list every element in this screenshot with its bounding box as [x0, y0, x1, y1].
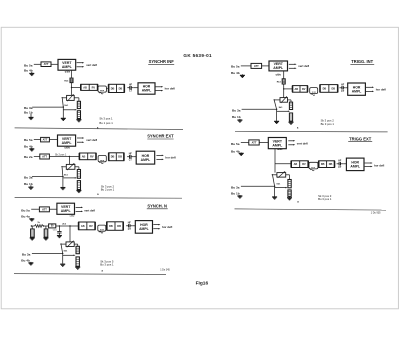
node branch to pot C3 — [69, 156, 70, 157]
block VERT AMPL U1 — [58, 59, 76, 70]
potentiometer P1 C5 — [66, 242, 74, 247]
svg-text:Bu 3a: Bu 3a — [22, 252, 31, 256]
shunt resistor mid stem C5 — [45, 226, 47, 229]
svg-text:Bu 4b: Bu 4b — [231, 71, 240, 75]
resistor divider lower C5 — [76, 257, 79, 266]
wiper arrow C4 — [275, 187, 286, 189]
block VERT AMPL C5 — [57, 203, 75, 214]
shunt resistor mid C5 — [44, 229, 48, 237]
svg-text:Bu 5a: Bu 5a — [231, 64, 240, 68]
ground divider C4 — [289, 196, 291, 197]
capacitor HF/CT C4 — [337, 163, 340, 165]
wire limiter to pair2 — [106, 88, 108, 89]
svg-text:RV: RV — [90, 155, 94, 158]
ground Bu1b C3 — [30, 185, 32, 187]
wire dot to pot C5 — [61, 243, 66, 245]
svg-text:Fig16: Fig16 — [196, 280, 209, 286]
wire input to series resistor C5 — [31, 225, 34, 227]
svg-text:Sk1: Sk1 — [64, 105, 69, 107]
svg-text:u/div: u/div — [65, 72, 71, 74]
ground switch node C3 — [62, 187, 64, 188]
ground divider C2 — [290, 121, 292, 122]
svg-text:a: a — [97, 193, 99, 196]
potentiometer P1 C3 — [66, 164, 75, 169]
svg-text:SYNCHR INF: SYNCHR INF — [149, 59, 175, 64]
limiter rounded box C5 — [98, 225, 106, 231]
wire Bu3a to node C3 — [32, 176, 63, 178]
potentiometer P1 — [67, 95, 75, 100]
svg-text:vert defl: vert defl — [297, 142, 308, 146]
resistor divider R2 upper — [77, 101, 80, 108]
svg-text:ATT: ATT — [42, 154, 47, 158]
svg-text:a: a — [297, 126, 299, 129]
wiper arrow C5 — [63, 254, 74, 256]
capacitor HF/CT coupling — [127, 87, 130, 89]
switch arm C5 — [61, 245, 63, 254]
svg-text:Bu 1b: Bu 1b — [231, 192, 240, 196]
svg-text:DB: DB — [111, 156, 115, 159]
svg-text:Bu 3 pos 1: Bu 3 pos 1 — [321, 122, 335, 126]
block pair DB DB second — [109, 84, 125, 92]
svg-text:CT: CT — [128, 229, 132, 231]
svg-text:hor defl: hor defl — [162, 225, 172, 229]
wire Bu3a to node C5 — [32, 252, 63, 254]
limiter rounded box — [98, 86, 106, 92]
svg-text:CT: CT — [129, 91, 133, 93]
svg-text:Bu 1b: Bu 1b — [232, 115, 241, 119]
ground Bu1b — [30, 114, 32, 118]
svg-text:AMPL: AMPL — [142, 89, 152, 93]
output arrows vert defl C5 — [76, 206, 82, 208]
node pot left lead C3 — [61, 166, 62, 167]
svg-text:Bu 1 pos 1: Bu 1 pos 1 — [99, 121, 113, 125]
block VERT AMPL C3 — [58, 135, 76, 146]
svg-text:HF: HF — [128, 222, 132, 224]
output arrows hor defl C3 — [156, 154, 162, 156]
wire tap to pulse shaper chain — [72, 87, 81, 89]
ground divider C3 — [78, 190, 80, 191]
shunt capacitor stem C5 — [58, 226, 60, 232]
wire cap to hor ampl C3 — [134, 156, 137, 158]
section separator line 3 — [15, 197, 182, 200]
block pair DB DB first C4 — [291, 161, 308, 168]
wire vert ampl down C4 — [274, 149, 276, 173]
resistor divider upper C3 — [77, 170, 80, 179]
wiper arrow C3 — [63, 177, 75, 179]
block pair DB DB second C3 — [109, 153, 124, 161]
node pot left lead C2 — [274, 99, 275, 100]
filter box C5 — [49, 224, 56, 228]
output arrows vert defl — [77, 62, 83, 64]
ground Bu4b C3 — [31, 148, 33, 149]
block pair DB DB first C3 — [79, 153, 96, 160]
svg-text:Rb1: Rb1 — [64, 81, 69, 83]
output arrows hor defl C5 — [153, 224, 159, 226]
wire ATT to vert ampl C2 — [262, 65, 269, 67]
svg-text:Bu 4b: Bu 4b — [21, 259, 30, 263]
switch Sk1 node — [63, 106, 64, 107]
block pair DB DB first — [81, 84, 98, 90]
wire dot to pot — [62, 97, 66, 99]
svg-text:Bu 4b: Bu 4b — [24, 69, 33, 73]
block pair DB DB second C4 — [319, 161, 335, 168]
svg-text:SYNCHR EXT: SYNCHR EXT — [147, 134, 174, 139]
wire R1 to pot — [71, 83, 73, 96]
capacitor HF/CT C3 — [127, 156, 130, 158]
block HOR AMPL C2 — [348, 83, 366, 95]
wire pair1 to limiter — [97, 88, 99, 90]
svg-text:Bu 5a: Bu 5a — [24, 63, 33, 67]
svg-text:Bu 3a: Bu 3a — [24, 106, 33, 110]
wire Bu5a to ATT C4 — [241, 142, 249, 144]
svg-text:u/div: u/div — [276, 74, 282, 76]
svg-text:C16: C16 — [53, 230, 58, 232]
switch arm to pot lead — [62, 99, 63, 108]
attenuator ATT C4 — [249, 140, 259, 145]
svg-text:TRIGG. INT: TRIGG. INT — [351, 59, 373, 64]
wire branch down to pot C5 — [69, 226, 71, 242]
svg-text:RV: RV — [92, 86, 96, 89]
svg-text:AMPL: AMPL — [141, 158, 151, 162]
svg-text:Bu 4b: Bu 4b — [24, 145, 33, 149]
ground Bu4a C5 — [31, 217, 33, 220]
ground switch node C4 — [274, 196, 276, 197]
wire R1 to pot C2 — [283, 84, 285, 98]
switch arm C2 — [274, 101, 276, 110]
wire node to ground C2 — [276, 109, 278, 120]
resistor divider lower C3 — [77, 181, 80, 190]
wire ATT to vert ampl C5 — [49, 208, 57, 210]
svg-text:hor defl: hor defl — [374, 163, 384, 167]
svg-text:Bu 3a: Bu 3a — [232, 109, 241, 113]
svg-text:ATT: ATT — [254, 64, 259, 68]
attenuator ATT C3 — [41, 137, 50, 142]
wire vert ampl down C2 — [283, 71, 285, 79]
resistor R1 C2 — [282, 79, 285, 84]
wire node to ground C5 — [62, 253, 64, 263]
switch arm C4 — [273, 175, 275, 186]
attenuator box row2 C3 — [40, 154, 50, 159]
svg-text:u/div: u/div — [70, 215, 76, 217]
wire cap to hor ampl C5 — [133, 225, 136, 227]
output arrows vert defl C3 — [77, 137, 83, 139]
svg-text:1k: 1k — [37, 222, 40, 224]
svg-text:AMPL: AMPL — [352, 89, 362, 93]
wire dot to pot C3 — [62, 166, 66, 168]
svg-text:2k2: 2k2 — [62, 223, 66, 225]
section separator line 5 — [14, 273, 166, 276]
wire Bu3a to node C2 — [242, 108, 277, 110]
svg-text:Bu 5a: Bu 5a — [21, 209, 30, 213]
svg-text:SYNCH. N: SYNCH. N — [147, 204, 167, 209]
svg-text:TRIGG EXT: TRIGG EXT — [349, 136, 372, 141]
block pair DB DB second C2 — [320, 85, 338, 93]
wiper arrow C2 — [277, 110, 289, 112]
svg-text:AMPL: AMPL — [62, 65, 73, 69]
svg-text:Sk1: Sk1 — [64, 174, 69, 176]
wire to filter box C5 — [44, 225, 49, 227]
wire Bu5a to ATT C3 — [34, 139, 41, 141]
ground Bu1b C2 — [239, 119, 241, 120]
svg-text:vert defl: vert defl — [86, 63, 97, 67]
block HOR AMPL C5 — [135, 221, 152, 234]
svg-text:AMPL: AMPL — [139, 227, 149, 231]
svg-text:AB: AB — [83, 86, 87, 89]
block pair DB DB first C2 — [293, 86, 308, 93]
svg-text:u/div: u/div — [65, 148, 71, 150]
switch node C4 — [274, 186, 275, 187]
block VERT AMPL C2 — [269, 61, 288, 71]
svg-text:hor defl: hor defl — [376, 88, 386, 92]
wire Bu5a to ATT C2 — [241, 65, 251, 67]
output arrows hor defl C2 — [366, 86, 373, 88]
svg-text:AMPL: AMPL — [272, 143, 283, 147]
svg-text:Bu 4a: Bu 4a — [21, 215, 30, 219]
switch node C5 — [62, 253, 63, 254]
svg-text:AMPL: AMPL — [62, 141, 73, 145]
svg-text:vert defl: vert defl — [298, 64, 309, 68]
ground shunt capacitor C5 — [58, 233, 60, 236]
wire dot to pot C4 — [272, 174, 277, 176]
svg-text:AB: AB — [294, 163, 298, 166]
svg-text:Sk1: Sk1 — [64, 251, 69, 253]
block pair DB DB second C5 — [107, 222, 123, 231]
wire node to ground C4 — [274, 186, 276, 196]
limiter rounded box C2 — [310, 88, 318, 94]
svg-text:Bu 5a: Bu 5a — [231, 142, 240, 146]
wire cap to hor ampl — [134, 87, 138, 89]
ground Bu4b C5 — [30, 262, 32, 263]
svg-text:CT: CT — [338, 167, 342, 169]
resistor divider upper C5 — [76, 246, 79, 253]
potentiometer P1 C2 — [280, 98, 288, 103]
potentiometer P1 C4 — [277, 173, 286, 178]
svg-text:DB: DB — [119, 87, 123, 90]
ground shunt mid C5 — [45, 236, 47, 239]
wire Bu3a to switch node — [32, 106, 63, 108]
resistor divider lower C4 — [288, 190, 291, 197]
node pot left lead — [62, 97, 63, 98]
wire vert ampl down — [71, 70, 73, 78]
limiter rounded box C4 — [309, 162, 318, 169]
svg-text:HF: HF — [341, 84, 345, 86]
svg-text:ATT: ATT — [43, 138, 48, 142]
svg-text:HF: HF — [129, 153, 133, 155]
section separator line 4 — [235, 209, 387, 210]
capacitor HF/CT C2 — [339, 87, 342, 89]
wire Bu3a to node C4 — [241, 185, 275, 187]
svg-text:DB: DB — [323, 87, 327, 90]
svg-text:DB: DB — [109, 225, 113, 228]
svg-text:RV: RV — [302, 88, 306, 91]
svg-text:DB: DB — [111, 87, 115, 90]
svg-text:AMPL: AMPL — [61, 209, 72, 213]
svg-text:RV: RV — [302, 163, 306, 166]
block HOR AMPL C3 — [136, 151, 155, 164]
ground Bu4b — [31, 72, 33, 74]
switch arm C3 — [61, 168, 64, 177]
svg-text:hor defl: hor defl — [165, 87, 175, 91]
svg-text:Rb1: Rb1 — [277, 81, 282, 83]
node row2 input C5 — [31, 225, 32, 226]
shunt resistor left stem C5 — [31, 226, 33, 229]
svg-text:AB: AB — [81, 225, 85, 228]
wire cap to hor ampl C2 — [346, 87, 348, 89]
svg-text:Bu 2a: Bu 2a — [24, 155, 33, 159]
svg-text:Bu 3 pos 1: Bu 3 pos 1 — [318, 197, 332, 201]
wire tap to chain C2 — [284, 88, 293, 90]
node chain tap C2 — [283, 88, 284, 89]
shunt resistor left C5 — [31, 229, 35, 237]
ground switch node C2 — [276, 120, 278, 121]
svg-text:AB: AB — [294, 88, 298, 91]
svg-text:DB: DB — [321, 163, 325, 166]
wire pot right lead C2 — [288, 99, 292, 101]
svg-text:Bu 2 pos 1: Bu 2 pos 1 — [101, 188, 115, 192]
ground switch node C5 — [62, 263, 64, 264]
svg-text:HF: HF — [129, 84, 133, 86]
svg-text:u/div: u/div — [277, 149, 283, 151]
output arrows hor defl C4 — [365, 162, 371, 164]
wiper arrow into divider — [63, 109, 75, 111]
resistor series zigzag C5 — [35, 225, 44, 228]
output arrows hor defl — [155, 86, 161, 88]
block VERT AMPL C4 — [268, 138, 286, 149]
node pot left lead C4 — [272, 174, 273, 175]
svg-text:ATT: ATT — [252, 140, 257, 144]
wire Bu5a to ATT C5 — [31, 208, 39, 210]
svg-text:1 Ds 345: 1 Ds 345 — [160, 268, 170, 271]
svg-text:Sk1: Sk1 — [279, 107, 284, 109]
output arrows vert defl C4 — [288, 140, 293, 142]
svg-text:AMPL: AMPL — [273, 66, 284, 70]
wire pot right lead C5 — [74, 243, 78, 245]
wire node to ground C3 — [62, 177, 64, 187]
wire node down to ground — [62, 107, 64, 117]
svg-text:DB: DB — [118, 156, 122, 159]
svg-text:Bu 4b: Bu 4b — [231, 149, 240, 153]
svg-text:ATT: ATT — [42, 207, 47, 211]
ground Bu4b C2 — [241, 74, 243, 75]
block pair DB DB first C5 — [79, 222, 96, 230]
section separator line 1 — [15, 128, 183, 130]
switch node C2 — [276, 109, 277, 110]
svg-text:vert defl: vert defl — [84, 208, 95, 212]
wire Bu2a to box C3 — [34, 156, 40, 158]
node junction shunt R2 C5 — [43, 225, 44, 226]
svg-text:DB: DB — [117, 225, 121, 228]
node pot left lead C5 — [60, 243, 61, 244]
block HOR AMPL U2 — [138, 83, 155, 94]
wire pot right lead C4 — [286, 174, 290, 176]
svg-text:CT: CT — [341, 91, 345, 93]
svg-text:HF: HF — [338, 160, 342, 162]
ground divider — [78, 119, 80, 120]
ground shunt left C5 — [31, 236, 33, 239]
svg-text:DB: DB — [329, 163, 333, 166]
ground Bu4b C4 — [240, 152, 242, 153]
svg-text:1 Du 935: 1 Du 935 — [371, 211, 381, 214]
output arrows vert defl C2 — [289, 63, 295, 65]
wire Bu5a to attenuator — [34, 63, 41, 65]
switch node C3 — [62, 176, 63, 177]
svg-text:AMPL: AMPL — [350, 165, 360, 169]
capacitor HF/CT C5 — [126, 225, 129, 227]
svg-text:ATT: ATT — [44, 62, 49, 66]
svg-text:vert defl: vert defl — [86, 138, 97, 142]
svg-text:Bu 3a: Bu 3a — [231, 185, 240, 189]
wire ATT to vert amplifier — [51, 63, 58, 65]
wire cap to hor ampl C4 — [343, 163, 346, 165]
shunt capacitor C5 — [57, 231, 61, 233]
svg-text:CT: CT — [129, 160, 133, 162]
resistor divider lower C2 — [289, 113, 292, 121]
svg-text:a: a — [102, 269, 104, 272]
limiter rounded box C3 — [98, 156, 106, 162]
node junction chain tap — [71, 87, 72, 88]
wire ATT to vert ampl C4 — [259, 142, 268, 144]
svg-text:Bu 1b: Bu 1b — [24, 182, 33, 186]
svg-text:Bu 3 pos 1: Bu 3 pos 1 — [100, 263, 114, 267]
svg-text:hor defl: hor defl — [165, 156, 175, 160]
attenuator ATT C5 — [39, 207, 49, 212]
resistor divider upper C2 — [289, 102, 292, 109]
wire tap to chain C4 — [275, 163, 291, 165]
node branch to pot C5 — [69, 225, 70, 226]
wire branch down to pot C3 — [68, 157, 70, 165]
svg-text:DB: DB — [331, 87, 335, 90]
attenuator ATT — [41, 62, 51, 67]
svg-text:Sk1: Sk1 — [276, 183, 281, 185]
resistor divider R3 lower — [77, 111, 80, 119]
wire pot right lead C3 — [75, 166, 79, 168]
svg-text:Sk 2 pos 1: Sk 2 pos 1 — [55, 154, 67, 157]
node junction shunt cap C5 — [59, 225, 60, 226]
wire pot right lead — [74, 97, 79, 99]
svg-text:AB: AB — [82, 155, 86, 158]
wire dot to pot C2 — [274, 99, 280, 101]
wire filter to chain C5 — [56, 225, 79, 227]
ground divider C5 — [77, 265, 79, 268]
wire box to chain C3 — [49, 156, 79, 158]
ground Bu1b C4 — [239, 195, 241, 196]
section separator line 2 — [235, 130, 388, 133]
ground switch node — [62, 117, 64, 118]
resistor R1 — [70, 78, 73, 83]
svg-text:a: a — [297, 201, 299, 204]
svg-text:Bu 3a: Bu 3a — [24, 175, 33, 179]
wire ATT to vert ampl C3 — [49, 139, 57, 141]
attenuator ATT C2 — [251, 63, 262, 68]
resistor divider upper C4 — [288, 180, 291, 188]
block HOR AMPL C4 — [346, 158, 364, 171]
svg-text:Bu 5a: Bu 5a — [24, 138, 33, 142]
svg-text:RV: RV — [89, 225, 93, 228]
svg-text:GK 5639-01: GK 5639-01 — [183, 53, 212, 58]
